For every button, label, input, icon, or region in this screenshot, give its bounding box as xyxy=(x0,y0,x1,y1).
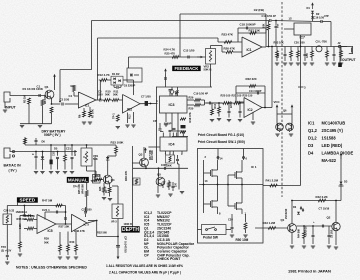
svg-text:47/16: 47/16 xyxy=(74,149,77,156)
svg-text:R44 56K: R44 56K xyxy=(298,228,301,238)
svg-text:OUTPUT: OUTPUT xyxy=(342,58,356,62)
svg-text:006P ( 9V ): 006P ( 9V ) xyxy=(44,133,61,137)
svg-text:CP: CP xyxy=(153,119,157,123)
svg-text:56K: 56K xyxy=(44,241,49,245)
svg-text:IC2: IC2 xyxy=(127,108,132,112)
svg-text:C20 1/50: C20 1/50 xyxy=(294,41,305,45)
svg-text:R43 1.2M: R43 1.2M xyxy=(263,221,276,225)
svg-text:C24: C24 xyxy=(228,218,233,222)
svg-text:50K: 50K xyxy=(93,157,98,161)
svg-text:1000P: 1000P xyxy=(164,122,172,126)
svg-text:R20 100: R20 100 xyxy=(221,94,231,98)
svg-text:SPEED: SPEED xyxy=(20,198,36,203)
svg-text:Print Circuit Board SW-1: Print Circuit Board SW-1 (500) xyxy=(198,140,245,144)
svg-text:R21 100: R21 100 xyxy=(232,94,242,98)
svg-text:1 ALL RESISTOR VALUES ARE IN: 1 ALL RESISTOR VALUES ARE IN OHMS 1/4W ±… xyxy=(106,264,183,268)
svg-text:D5: D5 xyxy=(54,147,58,151)
svg-text:VR4 50K: VR4 50K xyxy=(82,184,85,194)
svg-text:Q5: Q5 xyxy=(157,173,161,177)
svg-text:R35: R35 xyxy=(100,186,102,191)
svg-text:R29: R29 xyxy=(189,96,194,100)
svg-text:C5 L-7B0: C5 L-7B0 xyxy=(316,40,328,44)
svg-text:R24 4.7K: R24 4.7K xyxy=(164,48,176,52)
svg-text:(2) +4.5V: (2) +4.5V xyxy=(1,250,12,253)
svg-text:10K: 10K xyxy=(263,23,266,28)
svg-text:D3: D3 xyxy=(308,143,314,148)
svg-text:R32: R32 xyxy=(95,174,100,178)
svg-text:IC 5: IC 5 xyxy=(84,223,90,227)
svg-text:IC4: IC4 xyxy=(169,143,176,147)
svg-text:2200P: 2200P xyxy=(231,101,233,108)
svg-text:R47 5M: R47 5M xyxy=(42,198,53,202)
svg-text:R52 560: R52 560 xyxy=(97,231,107,235)
svg-text:1/50: 1/50 xyxy=(306,53,309,58)
svg-text:IC2: IC2 xyxy=(248,108,253,112)
svg-text:Q1,2: Q1,2 xyxy=(308,128,318,133)
svg-text:1S1588: 1S1588 xyxy=(322,136,337,141)
svg-text:R39 47K: R39 47K xyxy=(124,171,128,181)
svg-text:D6: D6 xyxy=(42,140,46,144)
svg-text:D3: D3 xyxy=(344,180,348,184)
svg-text:BAT/AC IN: BAT/AC IN xyxy=(4,164,22,168)
svg-text:R30: R30 xyxy=(189,106,194,110)
svg-text:IC 1: IC 1 xyxy=(251,165,257,169)
svg-text:DEPTH: DEPTH xyxy=(122,227,139,233)
svg-text:CT 10/16: CT 10/16 xyxy=(319,207,330,211)
svg-text:IC3: IC3 xyxy=(169,103,175,107)
svg-text:100K: 100K xyxy=(166,163,172,167)
svg-text:LAMBDA DIODE: LAMBDA DIODE xyxy=(322,151,354,156)
svg-text:VCC: VCC xyxy=(274,100,281,104)
svg-text:C14 1000P: C14 1000P xyxy=(249,90,262,93)
svg-text:TP-1: TP-1 xyxy=(112,113,116,119)
svg-text:C24 0.33: C24 0.33 xyxy=(4,209,15,213)
svg-text:R39: R39 xyxy=(44,237,49,241)
svg-text:C16 1/50: C16 1/50 xyxy=(314,15,325,19)
svg-text:C19 1/50 4P: C19 1/50 4P xyxy=(194,91,209,95)
svg-text:C30: C30 xyxy=(53,151,55,156)
svg-text:R42 2.2K: R42 2.2K xyxy=(316,195,329,199)
svg-text:2SC2240: 2SC2240 xyxy=(285,208,288,219)
svg-text:+: + xyxy=(313,220,315,224)
svg-text:R23 47K: R23 47K xyxy=(222,33,234,37)
svg-text:R32 10K: R32 10K xyxy=(274,41,284,45)
svg-text:R27 33K: R27 33K xyxy=(249,28,261,32)
svg-text:INPUT: INPUT xyxy=(5,106,17,110)
svg-text:100K B: 100K B xyxy=(124,223,133,226)
svg-text:TP3: TP3 xyxy=(1,245,6,249)
svg-text:2 ALL CAPACITOR VALUES ARE IN: 2 ALL CAPACITOR VALUES ARE IN μF ( P:μμF… xyxy=(109,271,181,275)
svg-text:1/2 (FB): 1/2 (FB) xyxy=(254,8,265,12)
svg-text:R1 1K: R1 1K xyxy=(23,87,32,91)
svg-text:2.2M: 2.2M xyxy=(19,224,22,230)
svg-text:R50 10M: R50 10M xyxy=(236,238,249,242)
svg-text:C15 1/50: C15 1/50 xyxy=(183,48,195,52)
svg-text:MC14007UB: MC14007UB xyxy=(322,121,346,126)
svg-text:R25 470: R25 470 xyxy=(165,52,176,56)
svg-text:R30 150: R30 150 xyxy=(243,94,253,98)
svg-text:R40: R40 xyxy=(70,240,75,244)
svg-text:1N3009 A: 1N3009 A xyxy=(16,210,28,214)
svg-text:Q4: Q4 xyxy=(111,178,115,182)
svg-text:Q2: Q2 xyxy=(327,216,331,220)
svg-text:1981 Printed in JAPAN: 1981 Printed in JAPAN xyxy=(288,269,331,274)
svg-text:R3 1M: R3 1M xyxy=(23,95,27,103)
svg-text:CP 0.047/50: CP 0.047/50 xyxy=(124,236,128,253)
svg-text:C7 1/50: C7 1/50 xyxy=(141,95,151,99)
svg-text:R37 10K: R37 10K xyxy=(59,225,70,229)
svg-text:C1: C1 xyxy=(37,85,41,89)
svg-text:C8 1/50: C8 1/50 xyxy=(331,229,333,238)
svg-text:C31: C31 xyxy=(66,147,71,151)
svg-text:2SC495 (Y): 2SC495 (Y) xyxy=(322,128,344,133)
svg-text:C4: C4 xyxy=(69,94,73,98)
svg-text:CP: CP xyxy=(144,253,149,257)
svg-text:IC1: IC1 xyxy=(247,48,252,52)
svg-text:R41 2.2M: R41 2.2M xyxy=(266,179,279,183)
svg-text:IC5: IC5 xyxy=(48,229,53,233)
svg-text:TP4: TP4 xyxy=(73,186,78,189)
svg-text:R12 4.7K: R12 4.7K xyxy=(98,73,111,77)
svg-text:R16: R16 xyxy=(214,103,217,108)
svg-text:C21 1: C21 1 xyxy=(42,208,50,212)
svg-text:R6: R6 xyxy=(78,114,82,118)
svg-text:R13: R13 xyxy=(129,114,132,119)
svg-text:R18 47K: R18 47K xyxy=(188,112,192,122)
svg-text:R19 56K: R19 56K xyxy=(151,150,154,160)
svg-text:D1: D1 xyxy=(307,6,311,10)
svg-text:Q1: Q1 xyxy=(45,85,49,89)
svg-text:+: + xyxy=(32,153,34,157)
svg-text:R4 47K: R4 47K xyxy=(43,95,47,104)
svg-text:IC1: IC1 xyxy=(85,104,90,108)
svg-text:C18 10000P: C18 10000P xyxy=(240,22,256,26)
svg-text:CHECK POINT: CHECK POINT xyxy=(157,257,181,261)
svg-text:C3 1/50: C3 1/50 xyxy=(60,98,70,102)
svg-text:R35 33K: R35 33K xyxy=(24,214,35,218)
svg-text:Q3: Q3 xyxy=(139,153,143,157)
svg-text:FEEDBACK: FEEDBACK xyxy=(175,66,200,71)
svg-text:C1 10/16: C1 10/16 xyxy=(306,226,308,236)
svg-text:MANUAL: MANUAL xyxy=(68,178,88,183)
svg-text:IC1: IC1 xyxy=(308,121,315,126)
svg-text:5: 5 xyxy=(181,154,182,156)
svg-text:LED (RED): LED (RED) xyxy=(322,143,343,148)
svg-text:R33 100K: R33 100K xyxy=(111,141,125,145)
svg-text:D1 D2: D1 D2 xyxy=(112,72,120,76)
svg-text:D4: D4 xyxy=(308,151,314,156)
svg-text:R45 10K: R45 10K xyxy=(78,184,81,194)
svg-text:1K: 1K xyxy=(106,190,108,193)
svg-text:D1,2: D1,2 xyxy=(308,136,317,141)
svg-text:Print Circuit Board FG-1: Print Circuit Board FG-1 (010) xyxy=(198,133,244,137)
svg-text:R7 10K: R7 10K xyxy=(91,109,95,118)
svg-text:NOTES : UNLESS OTHERWISE SP: NOTES : UNLESS OTHERWISE SPECIFIED xyxy=(16,265,87,269)
svg-text:47P: 47P xyxy=(324,14,329,18)
svg-text:R26 47K: R26 47K xyxy=(224,47,236,51)
svg-text:MA-522: MA-522 xyxy=(322,158,337,163)
svg-text:VR-3: VR-3 xyxy=(111,221,117,224)
svg-text:Q6: Q6 xyxy=(283,109,287,113)
svg-text:C6 2200P: C6 2200P xyxy=(124,84,136,88)
svg-text:56K: 56K xyxy=(105,92,110,96)
svg-text:Pedal SW: Pedal SW xyxy=(203,235,219,239)
svg-text:C19 1/50 4P: C19 1/50 4P xyxy=(262,14,277,18)
svg-text:56K: 56K xyxy=(113,92,118,96)
svg-text:( 9V ): ( 9V ) xyxy=(9,169,17,173)
svg-text:R8: R8 xyxy=(71,84,75,88)
svg-text:R46: R46 xyxy=(163,180,166,185)
svg-text:47K: 47K xyxy=(277,53,280,58)
svg-text:R22 220: R22 220 xyxy=(246,77,257,81)
